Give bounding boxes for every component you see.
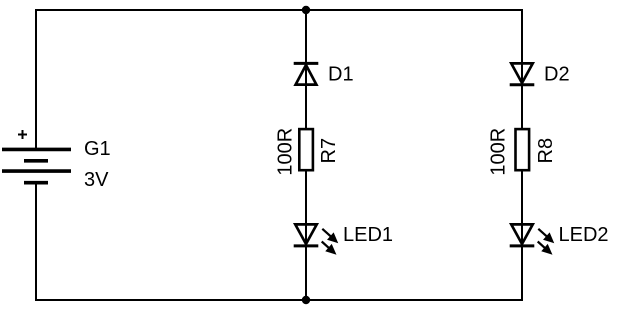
svg-text:100R: 100R (488, 128, 510, 176)
svg-text:R8: R8 (535, 138, 557, 164)
svg-text:3V: 3V (84, 169, 109, 191)
svg-text:R7: R7 (318, 138, 340, 164)
svg-text:100R: 100R (275, 128, 297, 176)
svg-text:LED2: LED2 (559, 224, 609, 246)
svg-text:LED1: LED1 (343, 224, 393, 246)
svg-text:D1: D1 (328, 64, 354, 86)
svg-text:G1: G1 (84, 138, 111, 160)
svg-text:D2: D2 (544, 64, 570, 86)
